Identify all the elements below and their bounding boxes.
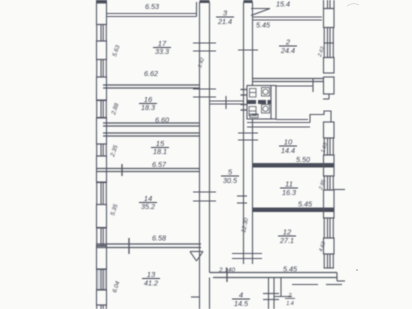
- wall room11/12: [253, 208, 335, 212]
- svg-text:41.2: 41.2: [144, 279, 158, 288]
- svg-text:6.62: 6.62: [144, 69, 158, 78]
- door swing room 2 top: [251, 9, 270, 16]
- door jamb ticks mid1: [191, 43, 216, 297]
- svg-text:15.4: 15.4: [276, 0, 290, 9]
- window W4 left: [96, 144, 107, 156]
- svg-text:24.4: 24.4: [280, 46, 295, 55]
- room 10 label: [279, 138, 297, 156]
- svg-text:14.5: 14.5: [234, 299, 249, 308]
- sanitary divider: [247, 100, 271, 104]
- wall left exterior piers: [96, 0, 107, 305]
- svg-text:5.45: 5.45: [256, 21, 271, 30]
- room 2 label: [279, 38, 297, 56]
- window R1 right: [324, 0, 335, 9]
- svg-text:6.58: 6.58: [152, 234, 166, 243]
- wall room2 bottom: [253, 79, 325, 82]
- window W2 left: [96, 60, 107, 78]
- window W1 left: [96, 25, 107, 42]
- wall corridor5 top partition: [210, 96, 244, 109]
- window band top of room 17: [106, 2, 197, 17]
- wall right exterior piers: [324, 9, 335, 255]
- door jamb dashes WC: [241, 90, 259, 115]
- svg-text:27.1: 27.1: [279, 236, 294, 245]
- svg-text:18.3: 18.3: [141, 103, 155, 112]
- bottom right step: [292, 273, 345, 285]
- wall room10/11: [253, 164, 335, 168]
- svg-text:6.60: 6.60: [155, 116, 169, 125]
- window R6 right: [324, 254, 335, 268]
- WC fixtures upper: [250, 88, 270, 98]
- window R3 right: [324, 138, 335, 155]
- window W5 left: [96, 183, 107, 205]
- wall room10 top with step: [247, 111, 331, 127]
- faint dot: [356, 269, 358, 271]
- room 13 label: [142, 270, 160, 288]
- svg-text:1.4: 1.4: [286, 301, 294, 307]
- svg-text:18.1: 18.1: [153, 147, 167, 156]
- window W8 left bottom: [96, 305, 107, 309]
- wall room16/15 upper: [103, 123, 200, 126]
- faint pencil scribble top right: [347, 4, 359, 6]
- wall room14/13: [96, 238, 201, 254]
- room 16 label: [139, 95, 157, 112]
- svg-text:5.45: 5.45: [283, 265, 298, 274]
- svg-text:35.2: 35.2: [141, 202, 155, 211]
- sanitary block outline: [247, 86, 276, 120]
- wall room17/16: [103, 85, 200, 88]
- room 5 label: [221, 168, 239, 186]
- wall corridor west (mid1): [200, 0, 210, 309]
- room small label: [285, 293, 295, 307]
- room 12 label: [278, 228, 296, 246]
- window R5 right: [324, 218, 335, 238]
- window W3 left: [96, 101, 107, 118]
- svg-text:30.5: 30.5: [223, 176, 238, 185]
- hook below entry pier: [323, 94, 329, 99]
- tick right wall: [334, 189, 345, 191]
- room 14 label: [139, 194, 157, 211]
- wall room16/15 lower: [103, 133, 200, 136]
- svg-text:5.50: 5.50: [296, 155, 310, 164]
- room 3 label: [216, 9, 234, 27]
- door swing room13: [190, 252, 203, 262]
- room 15 label: [151, 139, 169, 156]
- svg-text:2.140: 2.140: [218, 267, 235, 274]
- wall corridor east (mid2): [244, 0, 253, 264]
- window R2 right: [324, 28, 335, 58]
- room labels: number over area: [139, 9, 298, 309]
- svg-text:6.57: 6.57: [152, 160, 167, 169]
- svg-text:16.3: 16.3: [282, 188, 296, 197]
- svg-text:14.4: 14.4: [281, 146, 295, 155]
- room 17 label: [153, 39, 171, 56]
- wall corridor bottom: [210, 268, 338, 282]
- svg-text:5.45: 5.45: [298, 200, 313, 209]
- passage lines to east exit: [276, 78, 313, 120]
- window W7 left: [96, 270, 107, 290]
- window R4 right: [324, 176, 335, 190]
- door jamb ticks mid2: [232, 50, 262, 259]
- room 4 label: [232, 291, 250, 309]
- window W6 left: [96, 228, 107, 246]
- room 11 label: [280, 180, 298, 198]
- svg-text:21.4: 21.4: [217, 17, 232, 26]
- WC fixtures lower: [249, 105, 270, 118]
- wall room4 partition: [263, 278, 292, 309]
- wall room15/14: [96, 164, 200, 176]
- window band top of room 2: [253, 17, 323, 20]
- svg-text:33.3: 33.3: [155, 47, 169, 56]
- svg-text:6.53: 6.53: [145, 2, 159, 11]
